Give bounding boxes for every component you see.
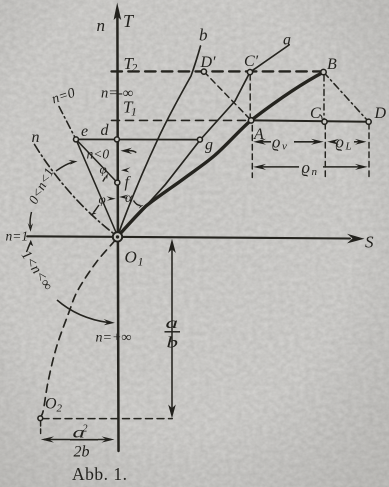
svg-text:2: 2 bbox=[132, 63, 138, 75]
point B bbox=[321, 69, 326, 74]
a/b dim top arrowhead bbox=[168, 239, 176, 253]
T2 dashed isotherm bbox=[112, 70, 324, 72]
dashed vertical below D bbox=[368, 124, 370, 178]
T axis (vertical) bbox=[117, 12, 118, 451]
point g bbox=[197, 137, 202, 142]
O2 vertical extension line bbox=[40, 422, 42, 437]
svg-text:v: v bbox=[282, 141, 287, 153]
svg-text:a: a bbox=[283, 32, 291, 49]
horizontal line e-d-g bbox=[76, 138, 200, 140]
point e bbox=[74, 137, 79, 142]
svg-text:n: n bbox=[97, 16, 106, 35]
1&lt;n&lt;inf bottom curved arrow pointing right at vertical axis (n=+inf) bbox=[57, 300, 108, 323]
svg-text:n<0: n<0 bbox=[87, 147, 110, 162]
dashed diagonal D' to A bbox=[204, 72, 251, 121]
point O2 bbox=[38, 416, 43, 421]
svg-text:α: α bbox=[125, 191, 133, 206]
dashed arc O1 to O2 bbox=[40, 240, 115, 417]
a/b dim bottom arrowhead bbox=[168, 405, 176, 419]
svg-text:n=1: n=1 bbox=[6, 229, 29, 244]
point circles bbox=[38, 69, 371, 421]
svg-text:L: L bbox=[345, 141, 352, 153]
svg-text:n=+∞: n=+∞ bbox=[96, 331, 132, 346]
a/b dimension vertical line bbox=[171, 247, 173, 411]
svg-text:C′: C′ bbox=[244, 53, 259, 70]
svg-text:n: n bbox=[312, 166, 318, 178]
line a (O1 through g and C' to label a) bbox=[118, 45, 289, 236]
T axis arrowhead bbox=[114, 3, 122, 21]
T1 dashed isotherm (axis to A) bbox=[112, 119, 252, 121]
thick polytropic curve O1-A-B bbox=[118, 72, 324, 237]
svg-text:2: 2 bbox=[83, 424, 88, 435]
1&lt;n&lt;inf top guide arrow pointing up at axis bbox=[27, 244, 31, 253]
dimension rho_L bbox=[330, 141, 335, 143]
svg-text:g: g bbox=[205, 137, 213, 154]
fraction bar a^2/2b bbox=[70, 439, 98, 441]
dashed horizontal from O2 right bbox=[42, 418, 172, 420]
svg-text:1: 1 bbox=[138, 255, 144, 269]
point C' bbox=[247, 70, 252, 75]
dashed vertical C' to A bbox=[249, 74, 251, 118]
point f bbox=[115, 180, 120, 185]
0&lt;n&lt;1 bottom guide arrow pointing down at n=1 axis bbox=[30, 212, 31, 226]
phi2 left curved arrow onto line n bbox=[94, 205, 100, 213]
dash-dot line n (left) to O1 bbox=[35, 145, 114, 234]
svg-text:n: n bbox=[32, 129, 40, 146]
dimension rho_n bbox=[257, 166, 299, 168]
dashed vertical below A bbox=[251, 126, 253, 178]
dash-dot n=0 line above e bbox=[59, 107, 76, 140]
T1 solid segment A-C-D bbox=[251, 120, 369, 121]
origin O1 double circle bbox=[113, 232, 122, 241]
phi2 right arrowhead pointing right at axis bbox=[107, 196, 116, 201]
line e to O1 bbox=[76, 139, 118, 236]
svg-text:A: A bbox=[253, 126, 264, 143]
point D' bbox=[201, 69, 206, 74]
alpha curved arrow onto line a bbox=[134, 201, 141, 206]
svg-text:D: D bbox=[374, 105, 387, 122]
svg-text:ϱ: ϱ bbox=[302, 158, 310, 177]
svg-text:O: O bbox=[125, 248, 137, 267]
svg-text:a: a bbox=[166, 315, 179, 332]
dash-dot B to D bbox=[324, 72, 369, 122]
line b (O1 up-left of D' to label b) bbox=[118, 46, 201, 236]
alpha left arrowhead pointing left at axis bbox=[119, 195, 128, 200]
svg-text:φ: φ bbox=[100, 162, 107, 177]
svg-text:e: e bbox=[81, 123, 88, 140]
n&lt;0 arrow pointing left at axis bbox=[127, 151, 136, 153]
svg-text:1: 1 bbox=[131, 107, 137, 119]
dashed vertical below C bbox=[324, 124, 326, 178]
svg-text:2b: 2b bbox=[74, 444, 90, 461]
dimension rho_v bbox=[41, 139, 368, 443]
small arrow phi1 pointing up-right to e-f line bbox=[103, 177, 106, 181]
svg-text:b: b bbox=[199, 26, 208, 45]
point C bbox=[322, 119, 327, 124]
point A bbox=[248, 118, 253, 123]
svg-text:Abb. 1.: Abb. 1. bbox=[72, 464, 128, 484]
svg-text:D′: D′ bbox=[200, 54, 217, 71]
dimension a^2/2b bbox=[44, 439, 111, 441]
dash-dot B to C vertical bbox=[323, 75, 325, 119]
C label tick bbox=[320, 115, 323, 120]
small arrow at f pointing left at axis bbox=[121, 167, 131, 172]
line e to f bbox=[76, 139, 117, 182]
point d bbox=[114, 137, 119, 142]
point D bbox=[366, 119, 371, 124]
svg-text:φ: φ bbox=[99, 192, 106, 207]
svg-text:ϱ: ϱ bbox=[272, 133, 280, 152]
svg-text:S: S bbox=[365, 233, 374, 252]
svg-text:d: d bbox=[101, 122, 110, 139]
0&lt;n&lt;1 top guide arrow bbox=[56, 163, 72, 172]
svg-text:2: 2 bbox=[57, 403, 63, 415]
svg-text:C: C bbox=[310, 105, 321, 122]
S axis (horizontal) bbox=[27, 236, 350, 238]
svg-text:ϱ: ϱ bbox=[336, 133, 344, 152]
svg-text:B: B bbox=[327, 56, 337, 73]
svg-text:O: O bbox=[45, 396, 57, 413]
svg-text:b: b bbox=[167, 335, 179, 352]
S axis arrowhead bbox=[347, 234, 365, 244]
